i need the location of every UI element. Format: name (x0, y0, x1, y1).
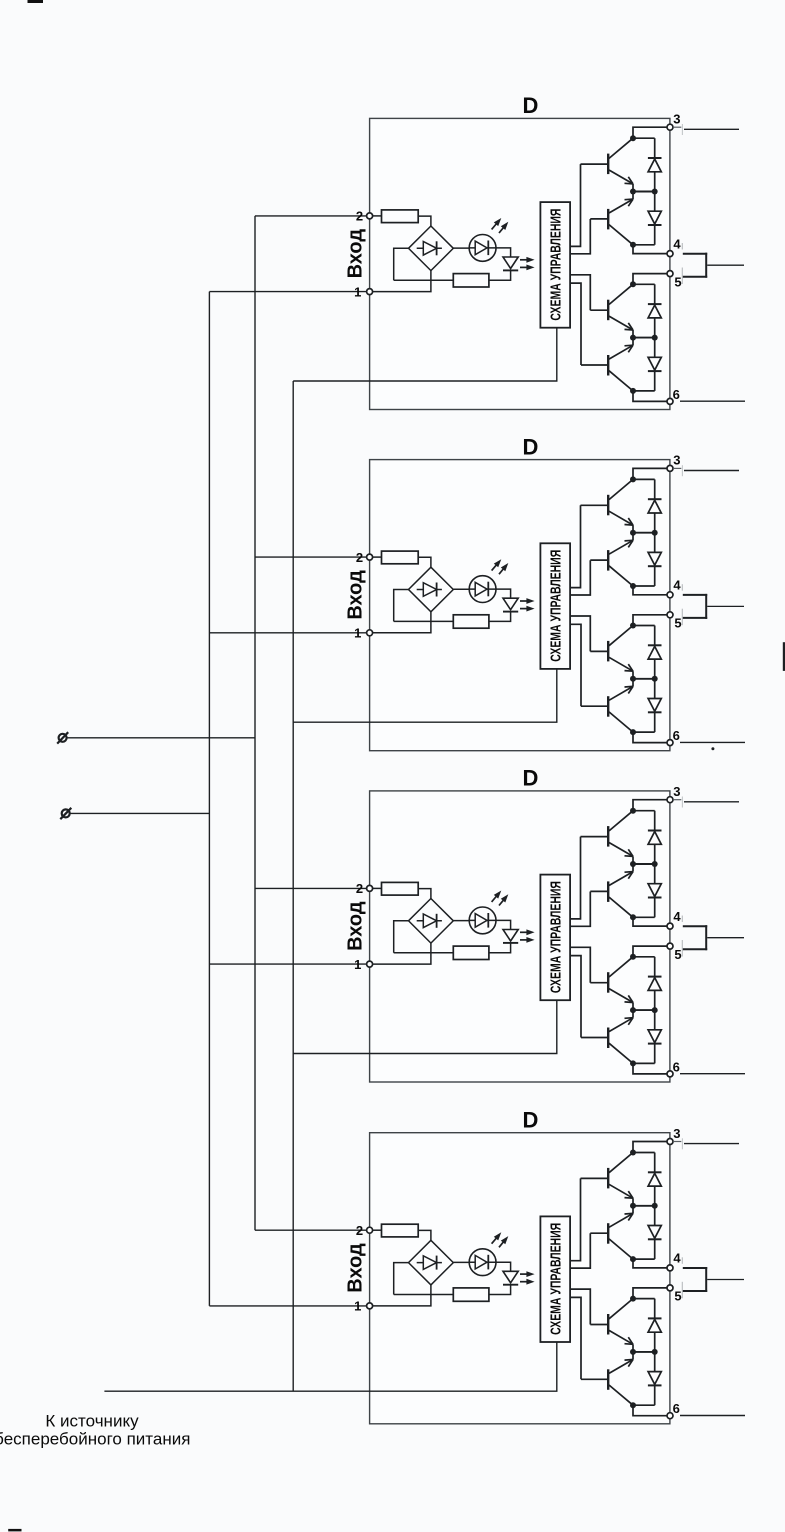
svg-text:6: 6 (673, 728, 680, 743)
svg-text:Вход: Вход (345, 1243, 367, 1293)
svg-text:бесперебойного питания: бесперебойного питания (0, 1429, 190, 1448)
svg-text:4: 4 (673, 909, 681, 924)
svg-text:3: 3 (673, 453, 680, 468)
svg-text:3: 3 (673, 784, 680, 799)
svg-text:5: 5 (674, 947, 681, 962)
svg-text:2: 2 (356, 209, 363, 224)
svg-text:2: 2 (356, 881, 363, 896)
svg-text:1: 1 (354, 1299, 361, 1314)
svg-text:6: 6 (673, 387, 680, 402)
svg-text:К источнику: К источнику (45, 1411, 139, 1430)
svg-text:1: 1 (354, 284, 361, 299)
svg-text:СХЕМА УПРАВЛЕНИЯ: СХЕМА УПРАВЛЕНИЯ (548, 550, 565, 662)
svg-text:2: 2 (356, 550, 363, 565)
svg-text:4: 4 (673, 1251, 681, 1266)
svg-text:СХЕМА УПРАВЛЕНИЯ: СХЕМА УПРАВЛЕНИЯ (548, 209, 565, 321)
svg-text:4: 4 (673, 578, 681, 593)
svg-text:СХЕМА УПРАВЛЕНИЯ: СХЕМА УПРАВЛЕНИЯ (548, 1223, 565, 1335)
svg-text:СХЕМА УПРАВЛЕНИЯ: СХЕМА УПРАВЛЕНИЯ (548, 881, 565, 993)
svg-text:3: 3 (673, 1126, 680, 1141)
svg-text:1: 1 (354, 957, 361, 972)
svg-text:5: 5 (674, 1289, 681, 1304)
svg-text:6: 6 (673, 1401, 680, 1416)
svg-text:3: 3 (673, 112, 680, 127)
svg-text:6: 6 (673, 1059, 680, 1074)
svg-text:5: 5 (674, 616, 681, 631)
svg-text:D: D (523, 766, 539, 791)
svg-text:D: D (523, 93, 539, 118)
svg-text:1: 1 (354, 626, 361, 641)
svg-text:5: 5 (674, 274, 681, 289)
svg-text:Вход: Вход (345, 229, 367, 279)
svg-text:Вход: Вход (345, 901, 367, 951)
svg-text:4: 4 (673, 236, 681, 251)
svg-text:2: 2 (356, 1223, 363, 1238)
svg-text:D: D (523, 1108, 539, 1133)
svg-text:Вход: Вход (345, 570, 367, 620)
svg-text:D: D (523, 434, 539, 459)
